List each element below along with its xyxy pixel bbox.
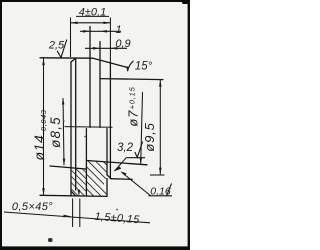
svg-text:ø8,5: ø8,5 xyxy=(48,116,63,148)
svg-text:0,9: 0,9 xyxy=(115,38,130,50)
svg-text:2,5: 2,5 xyxy=(48,40,65,52)
svg-text:0,16: 0,16 xyxy=(150,186,171,198)
svg-text:1: 1 xyxy=(115,24,121,36)
svg-text:ø14-0,043: ø14-0,043 xyxy=(31,109,48,160)
svg-text:0,5×45°: 0,5×45° xyxy=(12,201,53,213)
svg-text:1,5±0,15: 1,5±0,15 xyxy=(94,211,141,227)
svg-text:ø9,5: ø9,5 xyxy=(142,122,157,151)
svg-text:ø7+0,15: ø7+0,15 xyxy=(126,86,141,126)
svg-text:3,2: 3,2 xyxy=(117,142,134,154)
svg-text:4±0,1: 4±0,1 xyxy=(79,7,106,19)
svg-text:15°: 15° xyxy=(135,60,153,72)
